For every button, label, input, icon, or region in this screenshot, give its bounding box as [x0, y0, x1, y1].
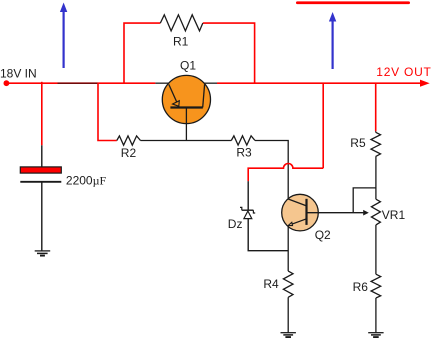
svg-text:R1: R1: [173, 35, 189, 49]
transistor Q1 (PNP pass transistor): [162, 75, 210, 123]
zener diode Dz: [240, 207, 255, 218]
resistor R5: [371, 132, 381, 156]
wire input bus (red, left of Q1): [6, 82, 155, 84]
wire R2 feed (red drop from bus): [98, 83, 117, 140]
wire R4 to ground: [287, 297, 289, 332]
resistor R2: [117, 136, 141, 145]
wire R6 to ground: [375, 298, 377, 333]
wire dark overlay segment on input bus: [58, 82, 98, 84]
svg-text:Dz: Dz: [228, 217, 243, 231]
transistor Q2 (NPN error amplifier): [282, 194, 319, 231]
wire R1 loop left leg (red): [124, 23, 160, 83]
wire hop over Q2 collector wire (red): [248, 164, 323, 182]
wire capacitor feed (black): [41, 145, 43, 167]
svg-text:2200µF: 2200µF: [66, 173, 107, 187]
svg-text:Q2: Q2: [315, 228, 331, 242]
resistor R6: [371, 274, 381, 298]
net 12V rail marker (top red line): [296, 1, 410, 4]
wire R5 bottom to VR1 top: [375, 131, 377, 132]
svg-text:R3: R3: [236, 146, 252, 160]
wire Q1 base lead down to R2/R3 node: [185, 108, 187, 141]
wire VR1 bottom to R6: [375, 225, 377, 274]
wire R2 to R3 (through Q1 base node): [141, 140, 232, 142]
wire Q2 base lead to VR1 wiper: [307, 212, 364, 214]
wire output bus (red, right of Q1): [217, 82, 421, 84]
svg-text:R2: R2: [121, 146, 137, 160]
svg-text:18V IN: 18V IN: [0, 66, 37, 80]
wire Q2 emitter down to R4: [287, 226, 289, 272]
svg-text:R5: R5: [350, 136, 366, 150]
wire zener feed (black): [247, 181, 249, 210]
wire capacitor to ground: [41, 182, 43, 251]
current flow arrow (right blue): [329, 12, 336, 69]
svg-text:Q1: Q1: [180, 59, 196, 73]
wire R3 right to corner and down to Q2 collector: [255, 141, 288, 200]
ground (R6): [368, 333, 383, 337]
current flow arrow (left blue): [60, 3, 67, 69]
wire R5 feed (red drop from bus): [375, 83, 377, 131]
ground (capacitor): [35, 251, 51, 256]
resistor R1: [160, 15, 203, 31]
capacitor C1 2200uF top plate: [20, 167, 61, 173]
wire capacitor feed (red drop from bus): [41, 82, 43, 146]
potentiometer VR1: [371, 199, 380, 225]
svg-text:R4: R4: [263, 277, 279, 291]
wire black bus segment under Q1: [155, 82, 217, 84]
potentiometer VR1 wiper arrow: [363, 210, 369, 216]
svg-text:R6: R6: [353, 280, 369, 294]
wire VR1 top tap to wiper line: [353, 188, 376, 213]
wire 12V sense drop (red, from bus to hop wire): [322, 83, 324, 168]
node 18V input terminal dot: [4, 80, 10, 86]
output bus arrowhead: [420, 80, 430, 87]
svg-text:VR1: VR1: [382, 208, 406, 222]
resistor R4: [283, 271, 293, 297]
wire R1 loop right leg (red): [203, 23, 255, 83]
wire zener anode down and right to R4 node: [248, 219, 288, 251]
ground (R4): [281, 333, 296, 337]
capacitor C1 bottom plate: [20, 181, 61, 183]
svg-text:12V OUT: 12V OUT: [376, 65, 431, 79]
resistor R3: [231, 136, 255, 145]
